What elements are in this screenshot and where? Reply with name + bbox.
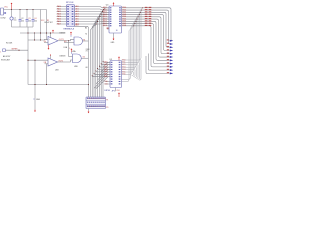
- svg-text:PC1: PC1: [122, 62, 125, 64]
- U5 left pin wire 4: [98, 69, 110, 70]
- power flag: [70, 35, 72, 37]
- svg-text:PB08: PB08: [122, 25, 126, 27]
- junction: [137, 15, 140, 18]
- U5 bottom stub: [115, 88, 117, 92]
- junction: [102, 8, 105, 11]
- power rail VCC: [4, 9, 47, 11]
- svg-text:74: 74: [85, 33, 87, 35]
- bus tap to U5 pin 5: [122, 17, 139, 70]
- junction: [140, 9, 143, 12]
- capacitor C3: [26, 10, 28, 20]
- wire: [34, 33, 36, 40]
- trimmer RV1: [3, 49, 6, 52]
- bus entry: [96, 72, 110, 84]
- off-page arrow: [170, 50, 173, 52]
- bus tap to U5 pin 6: [122, 19, 138, 72]
- U5 left pin wire 1: [103, 61, 110, 62]
- junction: [40, 39, 41, 40]
- bus entry: [101, 65, 110, 72]
- bus tap: [103, 8, 105, 97]
- and gate U3B: [73, 54, 82, 63]
- off-page wire 2: [146, 56, 170, 73]
- junction: [88, 84, 89, 85]
- capacitor C2: [19, 10, 21, 20]
- svg-text:PC2: PC2: [122, 64, 125, 66]
- svg-text:PC4: PC4: [122, 69, 125, 71]
- off-page arrow: [170, 59, 173, 61]
- svg-text:OUT1: OUT1: [59, 39, 64, 41]
- svg-text:104: 104: [28, 21, 31, 23]
- U4 right pin wire 3: [122, 12, 170, 47]
- svg-text:BC547 4K7: BC547 4K7: [45, 22, 53, 24]
- RP1 pin 7 wire: [57, 21, 67, 23]
- svg-text:C2: C2: [21, 18, 23, 20]
- bus tap to U5 pin 8: [122, 24, 135, 80]
- power flag down: [34, 110, 36, 111]
- wire: [44, 42, 48, 44]
- wire: [69, 56, 73, 58]
- svg-text:5: 5: [69, 48, 70, 50]
- junction: [50, 32, 51, 33]
- off-page arrow: [170, 43, 173, 45]
- svg-text:B0: B0: [85, 27, 87, 29]
- capacitor C4: [32, 10, 34, 20]
- junction: [99, 15, 102, 18]
- rail D: [28, 39, 45, 41]
- junction: [18, 50, 19, 51]
- RP1 pin 3 wire: [57, 11, 67, 13]
- off-page arrow: [170, 53, 173, 55]
- U4 left pin 7: [103, 18, 110, 20]
- wire: [50, 33, 52, 38]
- wire: [58, 61, 71, 63]
- wire: [58, 40, 71, 42]
- U4 ground stub: [113, 33, 115, 37]
- capacitor C1: [11, 10, 13, 17]
- svg-text:PA10: PA10: [57, 5, 61, 8]
- junction: [34, 32, 35, 33]
- connector JP1: [86, 97, 106, 109]
- svg-text:IN-: IN-: [44, 41, 47, 43]
- svg-text:GND: GND: [111, 42, 116, 44]
- svg-text:PB04: PB04: [122, 16, 126, 18]
- wire: [68, 41, 70, 57]
- wire: [27, 27, 29, 85]
- op-amp U1A: [48, 37, 58, 46]
- U4 right pin wire 2: [122, 10, 171, 44]
- bus tap: [90, 24, 96, 97]
- bus tap to U5 pin 2: [122, 10, 142, 62]
- wire: [28, 59, 48, 61]
- svg-text:JP1: JP1: [112, 90, 115, 92]
- RP1 pin 14 wire: [75, 11, 110, 14]
- U4 left pin 5: [103, 14, 110, 16]
- svg-text:PB00: PB00: [122, 7, 126, 9]
- U5 left pin wire 2: [101, 63, 110, 66]
- svg-text:PB03: PB03: [122, 14, 126, 16]
- svg-text:CS1: CS1: [104, 83, 107, 85]
- U4 right pin wire 7: [122, 21, 170, 60]
- junction: [101, 10, 104, 13]
- off-page arrow: [170, 69, 173, 71]
- wire: [45, 38, 49, 41]
- bus tap to U5 pin 9: [122, 26, 134, 82]
- svg-text:CS0: CS0: [104, 81, 107, 83]
- svg-text:104: 104: [21, 21, 24, 23]
- junction: [68, 40, 69, 41]
- off-page arrow: [170, 63, 173, 65]
- U4 right pin wire 9: [122, 26, 170, 67]
- U4 left pin 2: [103, 7, 110, 9]
- svg-text:AD0: AD0: [104, 61, 107, 64]
- U4 right pin wire 6: [122, 19, 170, 57]
- svg-text:PB01: PB01: [122, 9, 126, 11]
- bus tap: [94, 19, 99, 97]
- bus wire 9: [75, 26, 89, 97]
- svg-text:PC6: PC6: [122, 74, 125, 76]
- off-page arrow: [170, 46, 173, 48]
- U4 left pin 10: [103, 25, 110, 27]
- wire: [50, 55, 52, 59]
- svg-text:G1: G1: [83, 39, 85, 41]
- svg-text:LM358: LM358: [60, 32, 66, 34]
- svg-text:C4: C4: [34, 18, 36, 20]
- off-page wire 1: [149, 54, 170, 71]
- wire: [4, 12, 6, 14]
- U4 left pin 9: [103, 23, 110, 25]
- U4 left pin 6: [103, 16, 110, 18]
- bus stub: [136, 65, 138, 78]
- off-page arrow: [170, 66, 173, 68]
- wire: [46, 10, 48, 41]
- svg-text:LM358: LM358: [60, 55, 66, 57]
- junction: [11, 9, 12, 10]
- junction: [96, 67, 99, 70]
- junction: [91, 74, 94, 77]
- U5 left pin wire 5: [96, 71, 110, 72]
- RP1 pin 11 wire: [75, 18, 110, 20]
- RP1 pin 6 wire: [57, 18, 67, 20]
- junction: [19, 9, 20, 10]
- bus stub: [139, 60, 141, 80]
- svg-text:RESPACK-8: RESPACK-8: [64, 28, 75, 31]
- svg-text:U3A: U3A: [72, 50, 76, 53]
- U4 left pin 3: [103, 9, 110, 11]
- junction: [100, 62, 103, 65]
- svg-text:U1A: U1A: [64, 46, 68, 49]
- svg-text:104: 104: [34, 21, 37, 23]
- junction: [102, 60, 105, 63]
- bus entry: [94, 74, 110, 88]
- RP1 pin 4 wire: [57, 13, 67, 15]
- bus tap: [92, 22, 97, 98]
- RP1 pin 1 wire: [57, 6, 67, 8]
- junction: [97, 18, 100, 21]
- RP1 pin 13 wire: [75, 13, 110, 16]
- svg-text:PB05: PB05: [122, 18, 126, 20]
- bus tap to U5 pin 7: [122, 21, 137, 74]
- RP1 pin 9 wire: [75, 23, 110, 25]
- power flag: [118, 58, 120, 61]
- rail C: [20, 32, 65, 34]
- bus tap: [99, 12, 102, 98]
- RP1 pin 16 wire: [75, 7, 110, 8]
- RP1 pin 5 wire: [57, 16, 67, 18]
- bus tap: [101, 10, 104, 97]
- bus entry: [99, 67, 110, 76]
- bus stub: [135, 67, 137, 77]
- bus entry: [96, 77, 110, 89]
- svg-text:AD0: AD0: [76, 5, 79, 8]
- U5 left stub 0: [105, 81, 111, 83]
- ground rail: [12, 26, 34, 28]
- svg-text:U1B: U1B: [55, 69, 59, 71]
- off-page arrow: [170, 72, 173, 74]
- junction: [96, 20, 99, 23]
- junction: [26, 9, 27, 10]
- U4 right pin wire 5: [122, 17, 170, 54]
- U5 left pin wire 7: [92, 76, 110, 77]
- U4 right pin wire 4: [122, 15, 170, 51]
- ic U4: [109, 6, 122, 33]
- junction: [27, 60, 28, 61]
- svg-text:R4 10K: R4 10K: [6, 42, 13, 44]
- junction: [34, 39, 35, 40]
- junction: [132, 24, 135, 27]
- svg-text:RP1 103: RP1 103: [66, 2, 73, 4]
- svg-text:PC3: PC3: [122, 67, 125, 69]
- ic U5: [110, 61, 122, 88]
- U5 left pin wire 3: [99, 66, 110, 67]
- bus entry: [103, 62, 110, 67]
- connector ground: [88, 109, 90, 111]
- power flag VEE: [48, 45, 50, 48]
- svg-text:U4: U4: [106, 5, 109, 7]
- junction: [46, 84, 47, 85]
- junction: [139, 11, 142, 14]
- wire: [40, 10, 42, 41]
- power flag: [118, 94, 120, 97]
- resistor pack RP1: [67, 5, 75, 27]
- bus stub: [133, 70, 135, 77]
- svg-text:P1: P1: [106, 99, 108, 101]
- junction: [141, 6, 144, 9]
- junction: [46, 32, 47, 33]
- junction: [100, 13, 103, 16]
- junction: [27, 32, 28, 33]
- junction: [93, 72, 96, 75]
- U4 left pin 8: [103, 20, 110, 22]
- svg-text:GND: GND: [36, 99, 41, 101]
- RP1 pin 12 wire: [75, 16, 110, 18]
- junction: [95, 23, 98, 26]
- RP1 pin 10 wire: [75, 20, 110, 22]
- power flag: [71, 52, 73, 54]
- svg-text:VCC: VCC: [41, 20, 45, 22]
- op-amp U1B: [48, 58, 58, 66]
- off-page arrow: [170, 40, 173, 42]
- U4 left pin 4: [103, 11, 110, 13]
- svg-text:PC5: PC5: [122, 71, 125, 73]
- wire: [83, 40, 89, 42]
- svg-text:1: 1: [0, 52, 1, 54]
- svg-text:R2: R2: [47, 20, 49, 22]
- svg-text:G2: G2: [83, 57, 85, 59]
- svg-text:OUT2: OUT2: [58, 60, 63, 62]
- svg-text:08: 08: [86, 67, 88, 69]
- bus stub: [132, 72, 134, 76]
- U4 right pin wire 1: [122, 8, 173, 41]
- bus tap: [98, 14, 102, 97]
- junction: [40, 32, 41, 33]
- junction: [135, 20, 138, 23]
- wire: [82, 57, 89, 59]
- svg-text:10: 10: [116, 30, 118, 32]
- power flag: [113, 3, 115, 6]
- bus tap to U5 pin 1: [122, 8, 143, 60]
- bus tap: [96, 17, 100, 98]
- svg-text:PB07: PB07: [122, 23, 126, 25]
- svg-text:C3: C3: [28, 18, 30, 20]
- junction: [94, 69, 97, 72]
- bus stub: [138, 62, 140, 79]
- power flag: [52, 31, 54, 33]
- svg-text:VCC: VCC: [4, 7, 8, 9]
- svg-text:W 4R-4N7: W 4R-4N7: [1, 59, 10, 61]
- RP1 pin 15 wire: [75, 9, 110, 10]
- feedback wire: [46, 64, 48, 85]
- junction: [50, 32, 51, 33]
- U4 right pin wire 8: [122, 24, 170, 64]
- junction: [133, 22, 136, 25]
- wire: [45, 63, 49, 65]
- wire: [64, 42, 74, 44]
- svg-text:PC0: PC0: [122, 59, 125, 61]
- svg-text:CLK: CLK: [117, 90, 121, 92]
- ground stub: [34, 60, 36, 109]
- svg-text:PB06: PB06: [122, 21, 126, 23]
- junction: [32, 9, 33, 10]
- junction: [104, 7, 107, 10]
- U5 left stub 1: [105, 83, 111, 85]
- RP1 pin 2 wire: [57, 8, 67, 10]
- svg-text:+: +: [49, 39, 50, 41]
- and gate U3A: [74, 37, 83, 45]
- svg-text:10u: 10u: [14, 19, 17, 21]
- svg-text:PB02: PB02: [122, 12, 126, 14]
- svg-text:74: 74: [86, 51, 88, 53]
- off-page arrow: [170, 56, 173, 58]
- junction: [98, 65, 101, 68]
- svg-text:CON2: CON2: [0, 18, 5, 20]
- bus tap to U5 pin 3: [122, 12, 141, 65]
- RP1 pin 8 wire: [57, 23, 67, 25]
- svg-text:U3B: U3B: [74, 66, 78, 68]
- svg-text:AD 4557: AD 4557: [3, 55, 10, 58]
- junction: [138, 13, 141, 16]
- svg-text:DIP16: DIP16: [105, 90, 110, 92]
- bottom rail: [28, 84, 88, 86]
- svg-text:P9: P9: [106, 107, 108, 109]
- bus entry: [98, 70, 110, 80]
- U5 left pin wire 6: [94, 73, 110, 74]
- wire: [71, 60, 73, 62]
- potentiometer wire: [6, 49, 29, 51]
- power flag VCC: [11, 4, 13, 10]
- junction: [34, 60, 35, 61]
- connector J1: [1, 8, 4, 15]
- svg-text:WIPER: WIPER: [12, 49, 19, 51]
- junction: [136, 18, 139, 21]
- bus tap to U5 pin 4: [122, 15, 140, 68]
- wire: [71, 39, 75, 40]
